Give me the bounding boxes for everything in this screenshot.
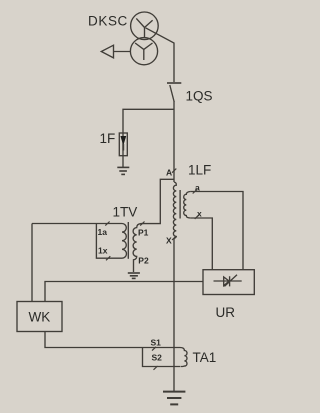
- excitation arrow triangle: [101, 45, 113, 58]
- svg-text:1a: 1a: [98, 227, 108, 237]
- node X terminal tick: [172, 236, 176, 240]
- 1TV core: [127, 222, 129, 259]
- reactor 1LF core: [179, 190, 181, 219]
- wire WK to TA1 S1: [45, 332, 180, 348]
- controller WK box: [17, 302, 62, 332]
- wire WK to UR: [45, 282, 203, 302]
- ground (1TV P2): [128, 272, 140, 274]
- wire bracket to TA1 S2: [143, 348, 181, 367]
- reactor 1LF secondary coil: [184, 192, 191, 219]
- wire 1TV 1a to WK: [31, 224, 33, 302]
- ground (main, bottom): [163, 391, 185, 393]
- svg-text:S2: S2: [152, 353, 163, 363]
- terminal S2 tick: [154, 366, 158, 370]
- branch wire to arrester 1F: [123, 109, 174, 133]
- svg-text:1LF: 1LF: [188, 163, 211, 178]
- node A terminal tick: [172, 169, 176, 173]
- svg-text:P2: P2: [138, 256, 149, 266]
- svg-text:1TV: 1TV: [113, 205, 138, 220]
- main bus wire 1QS down to ground: [173, 102, 175, 183]
- generator G (DKSC) top circle: [131, 12, 159, 40]
- arrester 1F arrow: [120, 136, 126, 146]
- voltage transformer 1TV secondary loop 1a-1x: [32, 224, 122, 259]
- wire A branch to 1TV P1: [141, 179, 174, 223]
- svg-text:1QS: 1QS: [186, 89, 213, 104]
- wire terminal a to UR: [190, 192, 243, 270]
- rectifier UR diode symbol: [214, 275, 242, 287]
- svg-text:X: X: [166, 236, 172, 246]
- svg-text:DKSC: DKSC: [88, 14, 128, 29]
- generator G bottom winding Y: [135, 43, 152, 60]
- 1TV primary coil P1-P2: [133, 224, 141, 272]
- svg-text:1F: 1F: [100, 131, 116, 146]
- terminal 1x tick: [106, 256, 110, 260]
- svg-text:UR: UR: [216, 305, 236, 320]
- terminal x tick: [195, 215, 199, 219]
- arrester 1F wire through: [122, 133, 124, 167]
- svg-text:1x: 1x: [98, 246, 108, 256]
- wire generator to 1QS (diagonal + vertical): [146, 28, 175, 82]
- svg-text:P1: P1: [138, 228, 149, 238]
- svg-text:WK: WK: [29, 310, 51, 325]
- svg-text:S1: S1: [151, 338, 162, 348]
- generator G bottom circle: [130, 38, 157, 65]
- wire terminal x to UR: [190, 218, 212, 270]
- arrester 1F body: [119, 133, 127, 156]
- disconnect switch 1QS fixed contact bar: [167, 82, 181, 84]
- 1TV secondary coil: [122, 224, 126, 259]
- wire generator to excitation arrow: [114, 51, 131, 53]
- svg-text:TA1: TA1: [193, 350, 217, 365]
- terminal S1 tick: [152, 347, 156, 351]
- current transformer TA1 secondary coil: [180, 348, 187, 367]
- terminal a tick: [193, 189, 197, 193]
- terminal P1 tick: [140, 222, 144, 226]
- disconnect switch 1QS blade: [170, 85, 174, 102]
- ground (1F): [117, 166, 129, 168]
- generator G top winding Y: [136, 18, 152, 37]
- rectifier UR box: [203, 270, 254, 295]
- svg-text:x: x: [197, 208, 202, 218]
- terminal 1a tick: [105, 222, 109, 226]
- reactor 1LF primary coil (on main bus): [173, 182, 176, 239]
- svg-text:A: A: [166, 168, 172, 178]
